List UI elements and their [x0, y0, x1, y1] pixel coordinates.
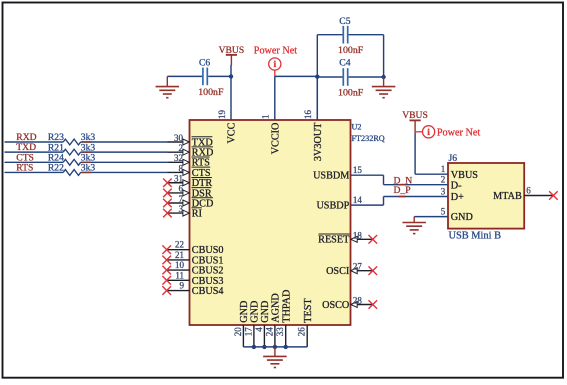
svg-text:4: 4 [254, 327, 264, 332]
svg-text:VCCIO: VCCIO [270, 123, 281, 155]
svg-text:6: 6 [179, 184, 184, 194]
svg-text:100nF: 100nF [198, 87, 224, 98]
svg-text:33: 33 [275, 327, 285, 337]
svg-text:Power Net: Power Net [437, 127, 480, 138]
svg-text:8: 8 [179, 163, 184, 173]
svg-text:1: 1 [441, 164, 446, 174]
svg-text:3V3OUT: 3V3OUT [313, 122, 324, 161]
svg-text:22: 22 [175, 240, 184, 250]
svg-text:3: 3 [179, 204, 184, 214]
svg-text:USBDP: USBDP [316, 201, 349, 212]
svg-text:R22: R22 [48, 163, 64, 174]
svg-text:VCC: VCC [227, 122, 238, 143]
svg-text:D-: D- [451, 180, 462, 191]
svg-text:GND: GND [451, 212, 473, 223]
svg-text:J6: J6 [449, 153, 458, 164]
svg-text:2: 2 [179, 143, 184, 153]
svg-text:15: 15 [353, 165, 363, 175]
svg-text:RI: RI [192, 209, 203, 220]
svg-text:C5: C5 [339, 16, 350, 27]
svg-text:AGND: AGND [271, 293, 282, 322]
svg-text:OSCO: OSCO [322, 300, 349, 311]
svg-text:21: 21 [175, 250, 184, 260]
svg-text:16: 16 [303, 110, 313, 120]
svg-text:100nF: 100nF [338, 87, 364, 98]
svg-text:32: 32 [174, 153, 183, 163]
svg-text:THPAD: THPAD [281, 290, 292, 323]
svg-text:10: 10 [175, 260, 185, 270]
svg-text:GND: GND [239, 301, 250, 323]
svg-text:18: 18 [353, 230, 363, 240]
svg-text:C4: C4 [339, 58, 350, 69]
svg-text:14: 14 [353, 195, 363, 205]
svg-text:GND: GND [250, 301, 261, 323]
svg-text:D_P: D_P [394, 185, 411, 196]
svg-text:26: 26 [297, 327, 307, 337]
svg-text:TEST: TEST [303, 298, 314, 323]
svg-text:USB Mini B: USB Mini B [449, 231, 502, 242]
svg-text:3: 3 [441, 186, 446, 196]
svg-text:U2: U2 [352, 123, 362, 132]
svg-text:MTAB: MTAB [493, 191, 522, 202]
svg-text:17: 17 [243, 327, 253, 337]
svg-text:7: 7 [179, 194, 184, 204]
svg-text:1: 1 [261, 115, 271, 120]
svg-text:RTS: RTS [16, 162, 33, 173]
svg-text:i: i [273, 60, 276, 70]
svg-text:100nF: 100nF [338, 45, 364, 56]
svg-text:VBUS: VBUS [402, 110, 428, 121]
svg-text:USBDM: USBDM [313, 171, 349, 182]
svg-text:9: 9 [180, 281, 185, 291]
svg-text:20: 20 [233, 327, 243, 337]
svg-text:Power Net: Power Net [254, 45, 297, 56]
svg-text:24: 24 [264, 327, 274, 337]
svg-text:D+: D+ [451, 192, 464, 203]
svg-text:6: 6 [526, 185, 531, 195]
svg-text:11: 11 [175, 270, 184, 280]
svg-text:2: 2 [441, 175, 446, 185]
svg-text:FT232RQ: FT232RQ [352, 134, 385, 143]
svg-text:5: 5 [441, 206, 446, 216]
svg-text:19: 19 [217, 110, 227, 120]
svg-text:27: 27 [353, 262, 363, 272]
svg-text:31: 31 [174, 174, 183, 184]
svg-text:C6: C6 [199, 58, 210, 69]
svg-text:CBUS4: CBUS4 [192, 286, 224, 297]
svg-text:GND: GND [260, 301, 271, 323]
svg-text:VBUS: VBUS [451, 170, 479, 181]
svg-text:30: 30 [174, 133, 184, 143]
svg-text:i: i [427, 128, 430, 138]
svg-text:OSCI: OSCI [326, 266, 350, 277]
svg-text:RESET: RESET [318, 235, 350, 246]
svg-text:28: 28 [353, 296, 363, 306]
